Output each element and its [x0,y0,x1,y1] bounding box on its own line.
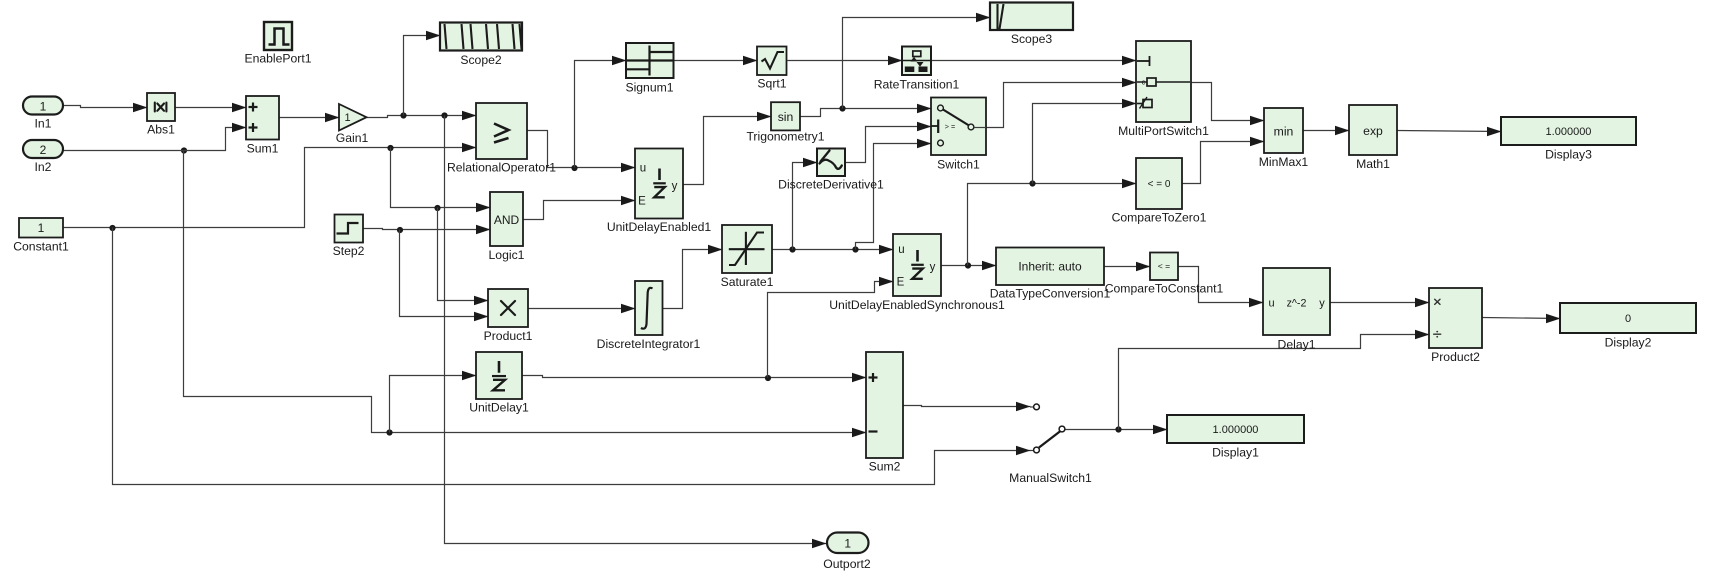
node junction ManualSwitch1 out [1115,426,1121,432]
svg-text:Signum1: Signum1 [625,81,673,95]
svg-text:z^-2: z^-2 [1287,297,1307,309]
gain Gain1 [339,104,367,131]
scope Scope3 [990,3,1073,31]
wire Sum2 to ManualSwitch1 in1 [904,406,1031,407]
discrete integrator DiscreteIntegrator1 [635,281,663,335]
svg-text:1: 1 [844,537,851,551]
unit delay UnitDelay1 [476,352,522,399]
wire Product2 to Display2 [1483,318,1561,319]
node junction Gain1 out b [441,112,447,118]
svg-text:Product2: Product2 [1431,350,1480,364]
svg-text:Math1: Math1 [1356,157,1390,171]
node junction UnitDelay1 out [765,375,771,381]
node junction UnitDelay1 tap [386,429,392,435]
product Product2 [1429,288,1482,348]
svg-text:y: y [1319,297,1325,309]
svg-text:E: E [897,277,905,289]
wire UnitDelay1 to Sum2 in1 [523,376,867,378]
switch Switch1 [931,98,986,156]
sum Sum1 [246,96,279,140]
wire CompareToConstant1 to Delay1 [1179,267,1264,303]
wire branch to Logic1 in1 [391,148,491,208]
svg-text:u: u [1268,297,1274,309]
math function Math1 [1349,105,1397,155]
signum Signum1 [626,43,674,78]
inport In1 [23,97,63,115]
svg-text:Sqrt1: Sqrt1 [757,77,786,91]
svg-text:Sum1: Sum1 [247,142,279,156]
node junction Saturate1 out a [789,246,795,252]
node junction sin out [839,105,845,111]
svg-text:ManualSwitch1: ManualSwitch1 [1009,471,1092,485]
svg-text:Trigonometry1: Trigonometry1 [746,130,824,144]
manual switch ManualSwitch1 [1030,406,1034,408]
saturation Saturate1 [722,225,772,273]
svg-text:1: 1 [40,99,47,113]
svg-text:CompareToZero1: CompareToZero1 [1112,211,1207,225]
node junction Logic1 in1 tap [434,205,440,211]
wire In1 to Abs1 [64,106,148,108]
logic Logic1 [490,192,523,246]
svg-text:DiscreteDerivative1: DiscreteDerivative1 [778,178,884,192]
multiport switch MultiPortSwitch1 [1136,41,1191,122]
scope Scope2 [440,23,522,51]
svg-text:1: 1 [38,221,45,235]
node junction Gain1 out a [400,112,406,118]
svg-text:Gain1: Gain1 [336,131,369,145]
svg-text:Scope3: Scope3 [1011,32,1053,46]
wire UDES1 to DataTypeConversion1 [942,265,997,267]
svg-text:DiscreteIntegrator1: DiscreteIntegrator1 [597,337,701,351]
abs Abs1 [147,93,175,121]
svg-text:UnitDelayEnabled1: UnitDelayEnabled1 [607,220,712,234]
wire DiscreteDerivative1 to Switch1 in2 [846,127,932,163]
relational operator RelationalOperator1 [476,103,527,159]
svg-text:RelationalOperator1: RelationalOperator1 [447,161,556,175]
unit delay enabled UnitDelayEnabled1 [635,149,683,219]
svg-text:u: u [640,163,646,175]
svg-text:UnitDelayEnabledSynchronous1: UnitDelayEnabledSynchronous1 [829,298,1005,312]
svg-text:exp: exp [1363,124,1383,138]
wire branch to Scope3 [843,18,991,109]
svg-text:Saturate1: Saturate1 [721,275,774,289]
svg-text:Scope2: Scope2 [460,53,502,67]
svg-text:Display2: Display2 [1605,336,1652,350]
wire branch to DiscreteDerivative1 [793,163,818,250]
wire Saturate1 to UnitDelayEnabledSynchronous1 u [773,249,894,251]
wire Switch1 to MultiPortSwitch1 in2 [987,83,1137,128]
svg-text:Inherit: auto: Inherit: auto [1018,259,1082,273]
wire Abs1 to Sum1 in1 [176,107,247,109]
wire RateTransition1 to MultiPortSwitch1 in1 [932,60,1137,62]
svg-text:Step2: Step2 [333,244,365,258]
wire Sum1 to Gain1 [280,117,340,119]
unit delay enabled synchronous UnitDelayEnabledSynchronous1 [893,234,941,296]
svg-text:E: E [638,196,646,208]
node junction RelOp in2 tap [387,145,393,151]
wire MultiPortSwitch1 to MinMax1 in1 [1192,83,1265,121]
svg-text:EnablePort1: EnablePort1 [244,52,311,66]
compare to constant CompareToConstant1 [1150,253,1178,281]
svg-text:min: min [1274,124,1294,138]
wire branch to MultiPortSwitch1 in3 [1033,104,1137,184]
wire UnitDelayEnabled1 to Trigonometry1 [684,117,772,185]
trigonometry Trigonometry1 [771,102,800,130]
svg-text:y: y [672,181,678,193]
svg-text:AND: AND [494,213,520,227]
svg-text:Product1: Product1 [484,329,533,343]
wire In2 to Sum1 in2 [64,128,247,151]
data type conversion DataTypeConversion1 [996,248,1104,286]
wire Constant1 branch to ManualSwitch1 in2 [113,228,1031,485]
node junction RelOp out [571,165,577,171]
wire Constant1 to RelationalOperator1 in2 [64,148,477,228]
wire Signum1 to Sqrt1 [674,60,758,62]
svg-text:< = 0: < = 0 [1148,179,1171,190]
svg-text:Constant1: Constant1 [13,240,69,254]
svg-text:Sum2: Sum2 [869,460,901,474]
svg-text:Display3: Display3 [1545,148,1592,162]
wire branch to Product1 in1 [438,208,489,301]
svg-text:Logic1: Logic1 [489,248,525,262]
wire branch to UnitDelay1 [390,376,477,433]
svg-text:UnitDelay1: UnitDelay1 [469,401,529,415]
svg-text:RateTransition1: RateTransition1 [874,78,960,92]
wire UnitDelay1 branch to UDES E [768,282,894,378]
compare to zero CompareToZero1 [1136,158,1182,209]
wire Math1 to Display3 [1398,131,1502,132]
node junction CTZ in tap [1029,180,1035,186]
wire CompareToZero1 to MinMax1 in2 [1183,142,1265,184]
wire branch to Scope2 [404,36,441,116]
svg-text:MinMax1: MinMax1 [1259,155,1309,169]
minmax MinMax1 [1264,108,1303,153]
wire Delay1 to Product2 in1 [1331,302,1430,304]
svg-text:Abs1: Abs1 [147,123,175,137]
wire branch to Product2 in2 [1119,335,1430,430]
wire In2 branch to Sum2 in2 [184,151,867,433]
svg-text:y: y [930,262,936,274]
wire DataTypeConversion1 to CompareToConstant1 [1105,266,1151,268]
svg-text:1.000000: 1.000000 [1546,126,1592,138]
wire branch to Outport2 [445,116,827,544]
svg-text:Switch1: Switch1 [937,158,980,172]
outport Outport2 [827,533,869,554]
wire ManualSwitch1 to Display1 [1066,429,1168,431]
svg-text:Display1: Display1 [1212,446,1259,460]
wire Step2 to Logic1 in2 [364,229,491,230]
node junction Step2 out [397,227,403,233]
display Display3 [1501,117,1636,145]
svg-text:Outport2: Outport2 [823,557,871,571]
svg-text:1.000000: 1.000000 [1213,424,1259,436]
node junction In2 line [181,147,187,153]
svg-text:u: u [898,244,904,256]
svg-text:MultiPortSwitch1: MultiPortSwitch1 [1118,124,1209,138]
node junction Constant1 out [109,225,115,231]
wire RelationalOperator1 to UnitDelayEnabled1 u [528,131,636,168]
wire Trigonometry1 to Switch1 in1 [801,109,932,117]
svg-text:2: 2 [40,143,47,157]
wire MinMax1 to Math1 [1304,130,1350,132]
wire Sqrt1 to RateTransition1 [788,60,903,62]
product Product1 [488,289,528,327]
discrete derivative DiscreteDerivative1 [817,149,845,177]
display Display2 [1560,303,1696,333]
wire Logic1 to UnitDelayEnabled1 E [524,201,636,220]
svg-text:In2: In2 [35,160,52,174]
sqrt Sqrt1 [757,47,787,76]
svg-text:sin: sin [778,110,794,124]
svg-text:c: c [1142,78,1146,87]
svg-text:DataTypeConversion1: DataTypeConversion1 [990,287,1111,301]
constant Constant1 [19,218,63,238]
wire branch to Switch1 in3 [856,144,932,250]
inport In2 [23,140,63,158]
wire branch to Signum1 [575,61,627,168]
enable port EnablePort1 [264,22,292,50]
step Step2 [335,215,364,243]
wire Step2 branch to Product1 in2 [400,230,489,317]
wire DiscreteIntegrator1 to Saturate1 [663,250,723,309]
svg-text:In1: In1 [35,117,52,131]
wire Product1 to DiscreteIntegrator1 [529,308,636,310]
node junction Saturate1 out b [852,246,858,252]
wire branch to CompareToZero1 [968,184,1137,266]
sum Sum2 [866,352,903,458]
delay Delay1 [1263,268,1330,335]
svg-text:CompareToConstant1: CompareToConstant1 [1105,282,1224,296]
svg-text:> =: > = [945,122,955,131]
svg-text:Delay1: Delay1 [1278,338,1316,352]
wire Gain1 to RelationalOperator1 in1 [367,116,477,118]
display Display1 [1167,415,1304,443]
svg-text:0: 0 [1625,313,1631,325]
rate transition RateTransition1 [902,47,931,76]
node junction UDES1 out [965,262,971,268]
svg-text:< =: < = [1158,261,1170,271]
svg-text:1: 1 [344,112,350,124]
